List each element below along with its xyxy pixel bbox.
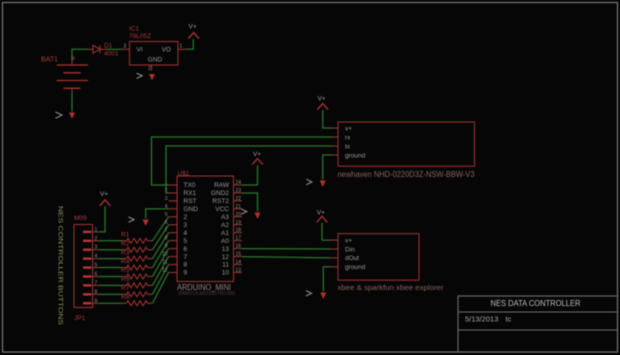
pin 6 (U$1 3) <box>165 220 188 229</box>
resistor R1 <box>121 232 153 244</box>
svg-text:3: 3 <box>165 196 168 202</box>
svg-text:rx: rx <box>345 134 351 141</box>
ground (xbee) <box>306 291 326 299</box>
wire JP1 pin 1 to V+ <box>99 206 105 232</box>
svg-text:78L05Z: 78L05Z <box>129 33 151 40</box>
svg-text:11: 11 <box>162 260 167 266</box>
connector JP1 M09 <box>74 215 93 322</box>
pin 3 (JP1) <box>83 245 99 251</box>
resistor R7 <box>121 285 153 297</box>
svg-text:Din: Din <box>345 246 355 253</box>
svg-text:VCC: VCC <box>215 206 229 213</box>
pin 4 (U$1 GND) <box>165 204 199 213</box>
svg-text:VO: VO <box>162 47 171 54</box>
wire battery minus to ground <box>71 93 73 112</box>
svg-text:A2: A2 <box>221 222 229 229</box>
svg-text:6: 6 <box>184 246 188 253</box>
wire newhaven v+ to V+ <box>323 110 332 128</box>
svg-text:8: 8 <box>95 289 98 295</box>
pin 23 (U$1 GND2) <box>211 188 242 197</box>
pin 5 (U$1 2) <box>165 212 188 221</box>
ground (arduino GND2) <box>241 209 260 219</box>
wire JP1 pin 7 to R6 <box>99 284 122 286</box>
svg-text:V+: V+ <box>100 191 108 198</box>
svg-text:2: 2 <box>184 214 188 221</box>
wire R1 to arduino pin 2 <box>153 217 169 241</box>
ground (battery negative) <box>56 112 76 119</box>
svg-text:24: 24 <box>236 180 242 186</box>
svg-text:2: 2 <box>95 236 98 242</box>
svg-text:V+: V+ <box>318 95 326 102</box>
svg-text:GND: GND <box>184 206 199 213</box>
pin v+ (xbee) <box>330 239 339 241</box>
pin 3 (IC1 VI) <box>122 44 130 50</box>
svg-text:9: 9 <box>165 244 168 250</box>
svg-text:11: 11 <box>222 262 229 269</box>
svg-text:NES CONTROLLER BUTTONS: NES CONTROLLER BUTTONS <box>56 206 63 326</box>
wire JP1 pin 3 to R2 <box>99 249 122 251</box>
pin 13 (U$1 10) <box>222 267 242 276</box>
svg-text:1: 1 <box>95 227 98 233</box>
wire JP1 pin 8 to R7 <box>99 293 122 295</box>
wire R7 to arduino pin 8 <box>153 265 169 295</box>
svg-text:RX1: RX1 <box>184 190 197 197</box>
svg-text:8: 8 <box>184 262 188 269</box>
pin 17 (U$1 A0) <box>221 236 242 245</box>
svg-text:16: 16 <box>236 244 242 250</box>
voltage regulator IC1 78L05Z <box>129 26 178 66</box>
svg-text:22: 22 <box>236 196 242 202</box>
svg-text:GND2: GND2 <box>211 190 229 197</box>
wire R3 to arduino pin 4 <box>153 233 169 259</box>
svg-text:VI: VI <box>137 47 143 54</box>
wire battery plus to diode D1 <box>72 49 88 60</box>
pin 2 (IC1 GND) <box>148 65 152 72</box>
svg-text:A0: A0 <box>221 238 229 245</box>
pin 9 (JP1) <box>83 298 99 304</box>
svg-text:V+: V+ <box>189 24 197 31</box>
svg-text:dOut: dOut <box>345 255 359 262</box>
pin 21 (U$1 VCC) <box>215 204 242 213</box>
svg-text:R1: R1 <box>121 232 130 239</box>
svg-text:newhaven NHD-0220D3Z-NSW-BBW-V: newhaven NHD-0220D3Z-NSW-BBW-V3 <box>338 170 476 179</box>
svg-text:1: 1 <box>180 44 183 50</box>
svg-text:SPARKFUN ARDUINO PRO MINI: SPARKFUN ARDUINO PRO MINI <box>178 291 235 297</box>
resistor R8 <box>121 294 153 306</box>
pin 1 (JP1) <box>83 227 99 233</box>
wire JP1 pin 2 to R1 <box>99 240 122 242</box>
pin ground (xbee) <box>330 266 339 268</box>
resistor R5 <box>121 267 153 279</box>
svg-text:3: 3 <box>124 44 127 50</box>
battery BAT1 <box>41 54 88 94</box>
wire diode to IC1 VI <box>107 48 122 50</box>
svg-text:V+: V+ <box>253 151 261 158</box>
svg-text:10: 10 <box>162 252 168 258</box>
svg-text:R7: R7 <box>121 285 130 292</box>
svg-text:6: 6 <box>165 220 168 226</box>
svg-text:RST: RST <box>184 198 197 205</box>
wire arduino RX1 to newhaven tx <box>166 146 332 193</box>
svg-text:7: 7 <box>95 280 98 286</box>
node NES CONTROLLER BUTTONS label <box>56 206 63 326</box>
supply V+ (IC1 output) <box>188 24 199 39</box>
resistor R3 <box>121 249 153 261</box>
pin 10 (U$1 7) <box>162 252 188 261</box>
pin 5 (JP1) <box>83 263 99 269</box>
svg-text:2: 2 <box>148 66 151 72</box>
pin 8 (U$1 5) <box>165 236 188 245</box>
svg-text:R8: R8 <box>121 294 130 301</box>
svg-text:v+: v+ <box>345 125 352 132</box>
pin 11 (U$1 8) <box>162 260 187 269</box>
svg-text:14: 14 <box>236 260 242 266</box>
pin 8 (JP1) <box>83 289 99 295</box>
svg-text:23: 23 <box>236 188 242 194</box>
svg-text:4001: 4001 <box>104 51 119 58</box>
svg-text:GND: GND <box>148 57 163 64</box>
pin Din (xbee) <box>330 248 339 250</box>
pin ground (newhaven) <box>332 154 339 156</box>
pin 9 (U$1 6) <box>165 244 188 253</box>
pin v+ (newhaven) <box>332 127 339 129</box>
wire JP1 pin 4 to R3 <box>99 258 122 260</box>
wire JP1 pin 9 to R8 <box>99 302 122 304</box>
title block <box>458 296 618 352</box>
pin dOut (xbee) <box>330 257 339 259</box>
svg-text:IC1: IC1 <box>129 26 140 33</box>
pin 2 (U$1 RX1) <box>165 188 197 197</box>
pin 3 (U$1 RST) <box>165 196 197 205</box>
ground (arduino GND) <box>129 217 149 226</box>
wire R8 to arduino pin 9 <box>153 272 169 303</box>
svg-text:R3: R3 <box>121 249 130 256</box>
radio module xbee sparkfun explorer <box>338 234 445 292</box>
svg-text:5: 5 <box>95 263 98 269</box>
pin 12 (U$1 9) <box>162 267 188 276</box>
svg-text:BAT1: BAT1 <box>41 57 58 64</box>
svg-text:8: 8 <box>165 236 168 242</box>
svg-text:20: 20 <box>236 212 242 218</box>
svg-text:ground: ground <box>345 152 366 159</box>
ground (newhaven) <box>306 179 325 187</box>
wire arduino GND to ground <box>146 209 169 219</box>
wire R4 to arduino pin 5 <box>153 241 169 268</box>
svg-text:9: 9 <box>184 270 188 277</box>
svg-text:19: 19 <box>236 220 242 226</box>
svg-text:V+: V+ <box>317 209 325 216</box>
pin 18 (U$1 A1) <box>221 228 242 237</box>
pin 1 (IC1 VO) <box>178 44 187 50</box>
svg-text:4: 4 <box>95 254 98 260</box>
wire IC1 VO to V+ <box>187 39 194 49</box>
pin 14 (U$1 11) <box>222 260 242 269</box>
pin 22 (U$1 RST2) <box>212 196 242 205</box>
svg-text:12: 12 <box>162 267 168 273</box>
svg-text:12: 12 <box>222 254 230 261</box>
wire xbee ground to ground <box>323 267 329 292</box>
wire JP1 pin 5 to R4 <box>99 267 122 269</box>
svg-text:4: 4 <box>184 230 188 237</box>
svg-text:15: 15 <box>236 252 242 258</box>
svg-text:v+: v+ <box>345 237 352 244</box>
svg-text:D1: D1 <box>104 43 113 50</box>
svg-text:JP1: JP1 <box>74 315 86 322</box>
supply V+ (JP1 pin 1) <box>100 191 111 206</box>
supply V+ (xbee) <box>317 209 328 222</box>
svg-text:17: 17 <box>236 236 242 242</box>
svg-text:TX0: TX0 <box>184 182 196 189</box>
pin 4 (JP1) <box>83 254 99 260</box>
svg-text:R6: R6 <box>121 276 130 283</box>
svg-text:9: 9 <box>95 298 98 304</box>
pin 20 (U$1 A3) <box>221 212 242 221</box>
svg-text:13: 13 <box>236 267 242 273</box>
ground (IC1 GND) <box>137 73 155 80</box>
svg-text:5: 5 <box>184 238 188 245</box>
svg-text:R5: R5 <box>121 267 130 274</box>
svg-text:4: 4 <box>165 204 168 210</box>
wire arduino 13 to xbee Din <box>242 248 330 250</box>
resistor R4 <box>121 258 153 270</box>
microcontroller U$1 ARDUINO_MINI <box>177 170 235 297</box>
pin 7 (JP1) <box>83 280 99 286</box>
wire arduino TX0 to newhaven rx <box>152 137 332 185</box>
pin 19 (U$1 A2) <box>221 220 242 229</box>
svg-text:6: 6 <box>95 272 98 278</box>
svg-text:10: 10 <box>222 270 230 277</box>
svg-text:3: 3 <box>184 222 188 229</box>
svg-text:xbee & sparkfun xbee explorer: xbee & sparkfun xbee explorer <box>338 285 445 292</box>
svg-text:ground: ground <box>345 264 366 271</box>
svg-text:13: 13 <box>222 246 230 253</box>
wire arduino GND2 to ground <box>242 193 258 212</box>
svg-text:NES DATA CONTROLLER: NES DATA CONTROLLER <box>491 298 581 308</box>
wire xbee v+ to V+ <box>322 223 330 240</box>
pin tx (newhaven) <box>332 145 339 147</box>
diode D1 4001 <box>88 43 119 58</box>
display U2 newhaven NHD-0220D3Z-NSW-BBW-V3 <box>338 122 476 179</box>
pin 15 (U$1 12) <box>222 252 242 261</box>
pin rx (newhaven) <box>332 136 339 138</box>
pin 7 (U$1 4) <box>165 228 188 237</box>
pin 1 (U$1 TX0) <box>165 180 196 189</box>
supply V+ (arduino RAW) <box>252 151 263 165</box>
svg-text:7: 7 <box>165 228 168 234</box>
supply V+ (newhaven) <box>317 95 328 109</box>
wire R5 to arduino pin 6 <box>153 249 169 277</box>
wire arduino 12 to xbee dOut <box>242 257 330 258</box>
svg-text:5: 5 <box>165 212 168 218</box>
svg-text:5/13/2013tc: 5/13/2013tc <box>465 315 512 324</box>
wire R2 to arduino pin 3 <box>153 225 169 250</box>
resistor R6 <box>121 276 153 288</box>
wire R6 to arduino pin 7 <box>153 257 169 286</box>
svg-text:R4: R4 <box>121 258 130 265</box>
wire arduino RAW to V+ <box>242 165 258 185</box>
pin 2 (JP1) <box>83 236 99 242</box>
wire newhaven ground to ground <box>323 155 332 180</box>
svg-text:3: 3 <box>95 245 98 251</box>
svg-text:M09: M09 <box>74 215 87 222</box>
pin 24 (U$1 RAW) <box>214 180 242 189</box>
svg-text:RAW: RAW <box>214 182 230 189</box>
svg-text:RST2: RST2 <box>212 198 229 205</box>
pin 6 (JP1) <box>83 272 99 278</box>
pin 16 (U$1 13) <box>222 244 242 253</box>
svg-text:21: 21 <box>236 204 242 210</box>
svg-text:7: 7 <box>184 254 188 261</box>
svg-text:18: 18 <box>236 228 242 234</box>
svg-text:A1: A1 <box>221 230 229 237</box>
svg-text:R2: R2 <box>121 240 130 247</box>
resistor R2 <box>121 240 153 252</box>
svg-text:tx: tx <box>345 143 351 150</box>
svg-text:A3: A3 <box>221 214 229 221</box>
wire JP1 pin 6 to R5 <box>99 275 122 277</box>
